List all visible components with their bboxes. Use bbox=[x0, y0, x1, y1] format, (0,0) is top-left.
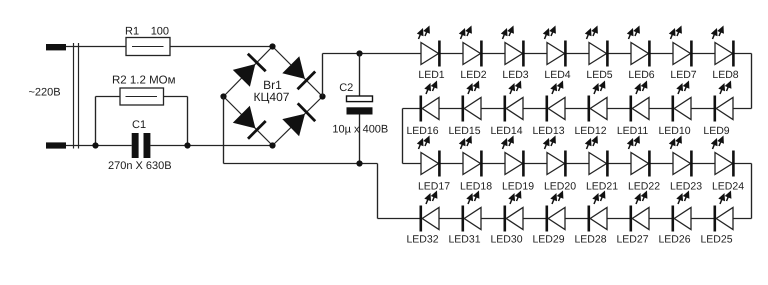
svg-text:LED3: LED3 bbox=[502, 69, 528, 81]
svg-text:LED9: LED9 bbox=[703, 125, 729, 137]
resistor R1 bbox=[126, 38, 170, 56]
terminal prong top bbox=[46, 44, 66, 50]
wire C2 top lead bbox=[359, 54, 361, 97]
svg-text:LED12: LED12 bbox=[574, 125, 606, 137]
bridge edge left-top bbox=[224, 47, 273, 97]
svg-text:LED23: LED23 bbox=[670, 181, 702, 193]
LED LED28 bbox=[589, 191, 607, 232]
LED LED1 bbox=[417, 26, 440, 67]
wire R1 to bridge top bbox=[170, 46, 273, 48]
wire top mains to R1 bbox=[66, 46, 126, 48]
svg-text:LED14: LED14 bbox=[490, 125, 522, 137]
svg-text:LED11: LED11 bbox=[617, 125, 648, 137]
wire return to row4 bbox=[378, 218, 422, 220]
LED LED3 bbox=[501, 26, 524, 67]
LED LED23 bbox=[669, 136, 692, 177]
LED LED8 bbox=[711, 26, 734, 67]
LED LED16 bbox=[421, 81, 439, 122]
svg-text:LED22: LED22 bbox=[628, 181, 660, 193]
svg-text:LED32: LED32 bbox=[406, 234, 438, 246]
LED LED20 bbox=[543, 136, 566, 177]
LED LED17 bbox=[417, 136, 440, 177]
node bridge top bbox=[269, 43, 275, 49]
svg-text:10µ x 400В: 10µ x 400В bbox=[332, 124, 388, 136]
wire return drop bbox=[377, 164, 379, 219]
wire R2 right vertical bbox=[187, 97, 189, 146]
wire row3 bbox=[403, 163, 752, 165]
LED LED24 bbox=[711, 136, 734, 177]
LED LED27 bbox=[631, 191, 649, 232]
wire bridge left drop bbox=[223, 97, 225, 164]
svg-text:LED16: LED16 bbox=[406, 125, 438, 137]
LED LED26 bbox=[673, 191, 691, 232]
bridge edge bottom-right bbox=[273, 97, 323, 146]
svg-text:LED25: LED25 bbox=[700, 234, 732, 246]
wire left bus row2-row3 bbox=[402, 109, 404, 164]
diode D2 top-right bbox=[282, 56, 315, 89]
LED LED32 bbox=[421, 191, 439, 232]
LED LED5 bbox=[585, 26, 608, 67]
node C2 bottom junction bbox=[356, 160, 362, 166]
LED LED19 bbox=[501, 136, 524, 177]
svg-text:100: 100 bbox=[151, 26, 169, 38]
node R2 right junction bbox=[184, 142, 190, 148]
diode D1 top-left bbox=[233, 54, 266, 87]
LED LED21 bbox=[585, 136, 608, 177]
LED LED4 bbox=[543, 26, 566, 67]
LED LED12 bbox=[589, 81, 607, 122]
svg-text:LED18: LED18 bbox=[460, 181, 492, 193]
wire plus rail bbox=[323, 53, 422, 55]
capacitor C2 plate top bbox=[347, 96, 373, 102]
wire R2 left horizontal bbox=[96, 96, 121, 98]
svg-text:C1: C1 bbox=[132, 119, 146, 131]
wire bottom mains to C1 bbox=[66, 145, 132, 147]
svg-text:LED13: LED13 bbox=[532, 125, 564, 137]
wire row2 bbox=[403, 108, 752, 110]
diode D4 bottom-right bbox=[282, 103, 315, 136]
svg-text:270n X 630В: 270n X 630В bbox=[108, 160, 172, 172]
bridge edge left-bottom bbox=[224, 97, 273, 146]
LED LED7 bbox=[669, 26, 692, 67]
svg-text:C2: C2 bbox=[339, 82, 353, 94]
terminal prong bottom bbox=[46, 142, 66, 148]
svg-text:LED24: LED24 bbox=[712, 181, 744, 193]
svg-text:LED15: LED15 bbox=[448, 125, 480, 137]
LED LED22 bbox=[627, 136, 650, 177]
LED LED14 bbox=[505, 81, 523, 122]
LED LED2 bbox=[459, 26, 482, 67]
svg-text:LED21: LED21 bbox=[586, 181, 618, 193]
svg-text:LED19: LED19 bbox=[502, 181, 534, 193]
wire row1 bbox=[421, 53, 752, 55]
node R2 left junction bbox=[92, 142, 98, 148]
LED LED25 bbox=[715, 191, 733, 232]
svg-text:LED29: LED29 bbox=[532, 234, 564, 246]
svg-text:LED31: LED31 bbox=[448, 234, 480, 246]
LED LED9 bbox=[715, 81, 733, 122]
svg-text:LED5: LED5 bbox=[586, 69, 612, 81]
LED LED15 bbox=[463, 81, 481, 122]
node bridge right bbox=[319, 93, 325, 99]
wire right bus row1-row2 bbox=[751, 54, 753, 109]
svg-text:LED8: LED8 bbox=[712, 69, 738, 81]
LED LED30 bbox=[505, 191, 523, 232]
LED LED6 bbox=[627, 26, 650, 67]
svg-text:LED26: LED26 bbox=[658, 234, 690, 246]
plug connector line 2 bbox=[78, 43, 80, 149]
node bridge bottom bbox=[269, 142, 275, 148]
LED LED29 bbox=[547, 191, 565, 232]
wire row4 bbox=[421, 218, 752, 220]
svg-text:LED6: LED6 bbox=[628, 69, 654, 81]
plug connector line 1 bbox=[73, 43, 75, 149]
bridge edge top-right bbox=[273, 47, 323, 97]
svg-text:R1: R1 bbox=[125, 26, 139, 38]
capacitor C2 plate bottom bbox=[347, 107, 373, 114]
svg-text:R2 1.2 МОм: R2 1.2 МОм bbox=[112, 75, 176, 87]
node bridge left bbox=[220, 93, 226, 99]
wire R2 right horizontal bbox=[164, 96, 188, 98]
LED LED10 bbox=[673, 81, 691, 122]
svg-text:LED27: LED27 bbox=[616, 234, 648, 246]
wire bridge right riser bbox=[322, 54, 324, 97]
diode D3 bottom-left bbox=[233, 106, 266, 139]
svg-text:~220В: ~220В bbox=[29, 87, 61, 99]
wire R2 left vertical bbox=[95, 97, 97, 146]
LED LED31 bbox=[463, 191, 481, 232]
svg-text:LED17: LED17 bbox=[418, 181, 450, 193]
LED LED11 bbox=[631, 81, 649, 122]
svg-text:LED10: LED10 bbox=[658, 125, 690, 137]
resistor R2 bbox=[120, 88, 164, 105]
wire C1 to bridge bottom bbox=[150, 145, 272, 147]
node C2 top junction bbox=[356, 50, 362, 56]
svg-text:LED1: LED1 bbox=[418, 69, 444, 81]
capacitor C1 plate right bbox=[144, 133, 151, 158]
svg-text:LED2: LED2 bbox=[460, 69, 486, 81]
svg-text:LED28: LED28 bbox=[574, 234, 606, 246]
LED LED18 bbox=[459, 136, 482, 177]
svg-text:LED7: LED7 bbox=[670, 69, 696, 81]
svg-text:LED30: LED30 bbox=[490, 234, 522, 246]
capacitor C1 plate left bbox=[132, 133, 139, 158]
svg-text:LED20: LED20 bbox=[544, 181, 576, 193]
wire right bus row3-row4 bbox=[751, 164, 753, 219]
LED LED13 bbox=[547, 81, 565, 122]
svg-text:КЦ407: КЦ407 bbox=[254, 90, 290, 104]
wire return horizontal bbox=[224, 163, 378, 165]
wire C2 bottom lead bbox=[359, 115, 361, 164]
svg-text:LED4: LED4 bbox=[544, 69, 570, 81]
